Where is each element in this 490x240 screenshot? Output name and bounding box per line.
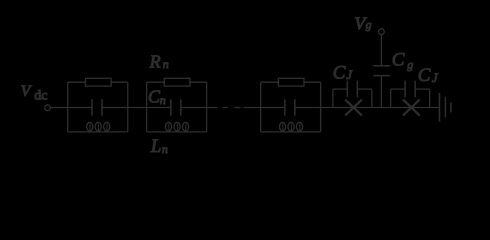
svg-text:C: C xyxy=(392,50,405,71)
inductor L of stage 2 (Ln) xyxy=(147,122,207,132)
wire dash 1 xyxy=(222,107,228,109)
label Rn xyxy=(149,52,169,72)
svg-text:n: n xyxy=(160,93,166,107)
inductor L of stage 3 xyxy=(261,122,321,132)
node left edge of RLC stage 3 xyxy=(260,82,262,132)
wire dash 2 xyxy=(234,107,241,109)
label Vg xyxy=(354,14,371,34)
ground xyxy=(440,93,451,122)
wire Vdc to stage 1 xyxy=(50,107,67,109)
wire junction 1 left vertical xyxy=(332,89,334,107)
node right edge of RLC stage 3 xyxy=(320,82,322,132)
terminal Vdc xyxy=(45,105,51,111)
capacitor C of stage 2 (Cn) xyxy=(147,99,207,115)
svg-text:R: R xyxy=(149,52,161,72)
label Ln xyxy=(150,136,168,157)
node right edge of RLC stage 1 xyxy=(127,82,129,132)
wire junction 2 left vertical xyxy=(390,89,392,107)
label Vdc xyxy=(21,83,48,103)
label CJ 2 xyxy=(418,65,439,86)
capacitor C of stage 1 xyxy=(68,99,128,115)
capacitor Cg xyxy=(373,66,390,76)
wire stage 1 to stage 2 xyxy=(128,107,147,109)
inductor L of stage 1 xyxy=(68,122,128,132)
wire junction 2 right vertical xyxy=(429,89,431,107)
capacitor CJ of junction 2 xyxy=(391,81,430,98)
capacitor C of stage 3 xyxy=(261,99,321,115)
wire stage 3 to ground xyxy=(321,107,440,109)
josephson junction X 2 xyxy=(403,100,420,116)
wire stage 2 to dots xyxy=(207,107,218,109)
node left edge of RLC stage 2 xyxy=(146,82,148,132)
svg-text:n: n xyxy=(162,142,168,156)
svg-text:C: C xyxy=(418,65,431,86)
wire Cg to main node xyxy=(380,76,382,107)
label Cn xyxy=(148,87,166,107)
label Cg xyxy=(392,50,414,72)
josephson junction X 1 xyxy=(345,100,362,116)
node right edge of RLC stage 2 xyxy=(206,82,208,132)
wire Vg to Cg xyxy=(380,35,382,66)
wire dots to stage 3 xyxy=(244,107,261,109)
terminal Vg xyxy=(379,29,385,35)
svg-text:g: g xyxy=(407,57,413,71)
resistor R of stage 1 xyxy=(68,78,128,86)
svg-text:dc: dc xyxy=(34,88,47,103)
resistor R of stage 2 (Rn) xyxy=(147,78,207,86)
svg-text:g: g xyxy=(366,18,372,32)
label CJ 1 xyxy=(333,62,354,83)
capacitor CJ of junction 1 xyxy=(333,81,372,98)
node left edge of RLC stage 1 xyxy=(67,82,69,132)
svg-text:C: C xyxy=(333,62,346,83)
wire junction 1 right vertical xyxy=(371,89,373,107)
svg-text:L: L xyxy=(150,136,162,157)
svg-text:n: n xyxy=(163,57,169,71)
resistor R of stage 3 xyxy=(261,78,321,86)
